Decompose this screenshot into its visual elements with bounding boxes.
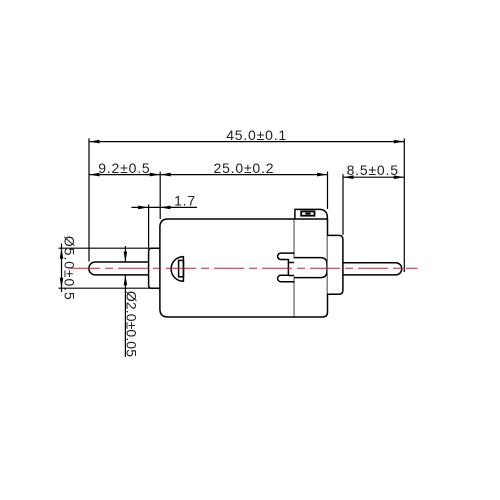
arrow 1.7 right: [160, 206, 171, 210]
arrow 8.5 right: [394, 175, 405, 179]
dimension line dia 2.0 lower stem: [124, 275, 126, 357]
svg-text:1.7: 1.7: [174, 193, 196, 209]
arrow 45.0 right: [394, 140, 405, 144]
arrow 1.7 left: [138, 206, 149, 210]
extension line body left edge: [159, 172, 161, 220]
left shaft: [89, 262, 149, 275]
dimension line 8.5: [343, 176, 404, 178]
arrow 9.2 left: [89, 173, 100, 177]
dimension line 9.2: [89, 174, 160, 176]
extension line left shaft tip: [88, 138, 90, 261]
front bearing inner rect: [179, 260, 184, 276]
brush housing bar: [294, 258, 327, 278]
motor body (can): [160, 219, 295, 317]
extension line collar left edge: [148, 205, 150, 248]
front collar: [149, 248, 160, 288]
arrow 45.0 left: [89, 140, 100, 144]
dimension line 45.0: [89, 141, 404, 143]
arrow 8.5 left: [343, 175, 354, 179]
right shaft: [343, 263, 402, 275]
svg-text:45.0±0.1: 45.0±0.1: [226, 127, 287, 143]
extension line right shaft tip: [403, 138, 405, 272]
extension line boss right edge: [342, 174, 344, 235]
extension line collar top: [59, 247, 152, 249]
svg-text:8.5±0.5: 8.5±0.5: [347, 162, 399, 178]
svg-text:Ø2.0±0.05: Ø2.0±0.05: [123, 291, 139, 357]
tab detail center dash: [305, 213, 310, 215]
terminal prongs: [278, 253, 295, 282]
dimension line dia 5.0: [61, 244, 63, 293]
arrow dia 2.0 bottom: [124, 275, 128, 286]
rear shaft end bottom line: [288, 275, 294, 277]
extension line endbell right edge: [327, 172, 329, 210]
arrow dia 5.0 bottom: [60, 278, 64, 289]
svg-text:25.0±0.2: 25.0±0.2: [214, 160, 275, 176]
arrow 25.0 left: [160, 173, 171, 177]
svg-text:9.2±0.5: 9.2±0.5: [98, 160, 150, 176]
front bearing (D-shape): [171, 257, 183, 282]
centerline (red): [70, 267, 418, 269]
endbell top tab: [295, 209, 327, 219]
tab detail outer rect: [301, 211, 314, 215]
arrow 9.2 right: [150, 173, 161, 177]
extension line collar bottom: [59, 287, 152, 289]
mask body edge behind brush housing: [293, 258, 296, 276]
rear bearing boss: [328, 235, 343, 294]
dimension line 1.7: [132, 206, 198, 208]
dimension line dia 2.0 upper stem: [124, 246, 126, 262]
arrow 25.0 right: [317, 173, 328, 177]
endbell block: [294, 219, 327, 317]
arrow dia 2.0 top: [124, 252, 128, 263]
rear shaft end top line: [288, 262, 294, 264]
arrow dia 5.0 top: [60, 248, 64, 259]
dimension line 25.0: [160, 174, 327, 176]
